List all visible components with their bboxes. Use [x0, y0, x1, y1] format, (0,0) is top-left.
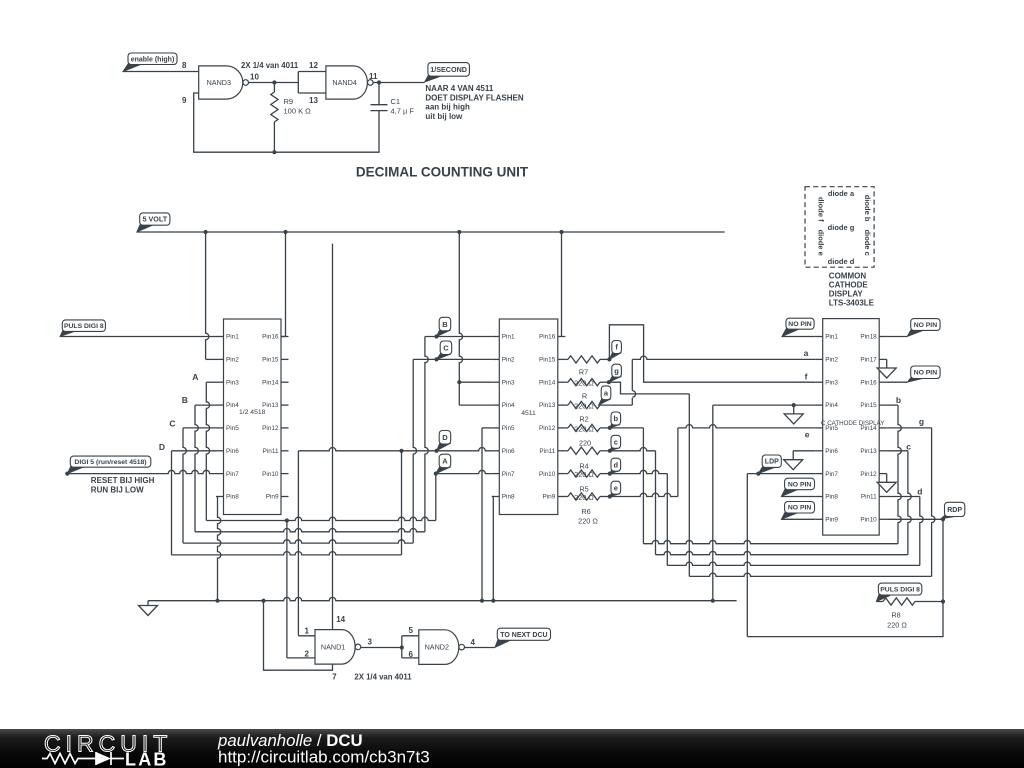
wire: pin8 stub wire — [781, 496, 815, 498]
svg-text:diode f: diode f — [817, 197, 826, 222]
svg-text:C: C — [443, 343, 449, 352]
wire: NAND1 out to NAND2 in — [361, 645, 404, 649]
svg-text:c: c — [614, 438, 618, 447]
svg-text:5: 5 — [409, 626, 414, 635]
flag: NO PIN (display pin18) — [907, 319, 940, 337]
text: RESET BIJ HIGH — [91, 476, 155, 494]
svg-text:Pin5: Pin5 — [502, 425, 515, 432]
wire: route a — [631, 398, 633, 405]
wire: node D loop (4518 pin6) — [172, 450, 217, 452]
wire: route g into Pin14 — [887, 427, 932, 429]
wire: pin4 drop to ground rail — [712, 405, 714, 601]
svg-text:100 K Ω: 100 K Ω — [284, 107, 312, 116]
svg-text:7: 7 — [332, 673, 337, 682]
flag: node C — [437, 341, 452, 359]
flag: NO PIN (display pin16) — [907, 366, 940, 382]
wire: NAND4-area vertical to NAND1 pin14 — [332, 244, 334, 630]
wire: route g vertical — [688, 394, 690, 577]
wire: L4 riser to 4511 pin6 junction — [401, 451, 403, 555]
resistor R9 body — [271, 92, 278, 122]
svg-text:Pin3: Pin3 — [502, 379, 515, 386]
op-amp-style gate NAND3 — [199, 66, 249, 99]
resistor R8 body — [883, 598, 915, 605]
wire: route b into Pin15 — [887, 404, 898, 406]
svg-text:e: e — [614, 483, 618, 492]
wire: L1 riser to 4511 pin7 — [435, 474, 437, 521]
svg-text:220 Ω: 220 Ω — [578, 516, 598, 525]
wire: 4511 pin1 row (B) — [425, 334, 492, 338]
svg-text:Pin1: Pin1 — [502, 334, 515, 341]
svg-text:uit bij low: uit bij low — [425, 112, 463, 121]
svg-text:NAAR 4 VAN 4511: NAAR 4 VAN 4511 — [425, 84, 493, 93]
svg-text:Pin10: Pin10 — [860, 517, 877, 524]
svg-text:2: 2 — [305, 649, 310, 658]
junction d — [608, 472, 612, 476]
svg-text:NO PIN: NO PIN — [914, 370, 938, 377]
svg-text:Pin7: Pin7 — [226, 471, 239, 478]
svg-text:Pin8: Pin8 — [226, 494, 239, 501]
flag: segment c — [610, 435, 621, 451]
wire: NAND2 out — [465, 647, 495, 649]
wire: 5V drop to 4518 pin16 — [285, 232, 287, 337]
flag: TO NEXT DCU — [495, 628, 551, 647]
svg-text:g: g — [614, 366, 619, 375]
wire: R8 left lead — [876, 601, 883, 603]
svg-text:1: 1 — [305, 627, 310, 636]
wire: route b vertical — [642, 428, 644, 544]
wire: route b run1 — [643, 540, 898, 543]
svg-text:6: 6 — [409, 650, 414, 659]
wire: L1 branch down to NAND1 pin2 — [286, 521, 288, 658]
svg-text:enable (high): enable (high) — [131, 56, 175, 63]
svg-text:LAB: LAB — [125, 750, 169, 768]
svg-text:Pin7: Pin7 — [502, 471, 515, 478]
wire: 4511 pin5 to ground rail — [482, 427, 492, 429]
gate NAND2 — [419, 630, 465, 665]
wire: display pin10 row to RDP — [887, 517, 945, 521]
svg-text:D: D — [159, 442, 165, 452]
svg-text:Pin13: Pin13 — [262, 402, 279, 409]
wire: ground rail — [148, 597, 737, 602]
svg-text:Pin6: Pin6 — [226, 448, 239, 455]
svg-text:b: b — [614, 414, 619, 423]
wire: route a horizontal — [632, 356, 815, 359]
wire: display pin12 to ground — [886, 474, 888, 483]
text: NAAR 4 VAN 4511 annotation — [425, 84, 523, 121]
wire: display pin17 to ground — [885, 359, 887, 368]
svg-text:PULS DIGI 8: PULS DIGI 8 — [880, 587, 920, 594]
svg-text:DIGI 5 (run/reset 4518): DIGI 5 (run/reset 4518) — [74, 459, 146, 466]
resistor segment row 1 — [568, 356, 600, 363]
footer bar — [0, 729, 1024, 768]
svg-text:Pin5: Pin5 — [226, 425, 239, 432]
svg-text:Pin2: Pin2 — [502, 357, 515, 364]
wire: route b — [610, 427, 644, 429]
IC U1 1/2 4518 — [216, 319, 289, 515]
wire: R8 right lead — [915, 601, 943, 603]
svg-text:A: A — [442, 457, 448, 466]
flag: segment d — [610, 458, 621, 473]
junction e — [608, 494, 612, 498]
svg-text:R9: R9 — [284, 97, 294, 106]
flag: 1/SECOND — [425, 63, 470, 83]
svg-text:Pin14: Pin14 — [262, 379, 279, 386]
text: COMMON CATHODE DISPLAY LTS-3403LE — [829, 272, 875, 308]
wire: 4511 pin7 row (A) — [434, 470, 492, 475]
svg-text:diode c: diode c — [863, 230, 872, 256]
wire: C vertical — [183, 428, 186, 543]
svg-text:4: 4 — [471, 638, 476, 647]
footer text — [217, 731, 430, 767]
svg-text:d: d — [917, 486, 922, 496]
resistor segment row 7 — [568, 493, 600, 500]
wire: bundle line L2 (B) — [195, 528, 425, 531]
svg-text:Pin10: Pin10 — [262, 471, 279, 478]
wire: 4518 pin8 to ground rail — [218, 497, 221, 601]
flag: NO PIN (display pin8) — [781, 478, 814, 496]
svg-text:NO PIN: NO PIN — [788, 481, 812, 488]
svg-text:1/2 4518: 1/2 4518 — [239, 409, 266, 416]
wire: bundle line L4 (D) — [172, 552, 402, 555]
svg-text:Pin12: Pin12 — [262, 425, 279, 432]
wire: route e — [610, 493, 678, 496]
svg-text:Pin16: Pin16 — [860, 379, 877, 386]
svg-text:3: 3 — [368, 637, 373, 646]
svg-text:COMMON: COMMON — [829, 272, 867, 281]
junction: R9 bottom — [272, 150, 276, 154]
svg-text:NAND3: NAND3 — [207, 78, 231, 87]
wire: A vertical — [206, 382, 209, 520]
wire: 5V drop to 4518 pin2 — [206, 232, 209, 359]
svg-text:CATHODE: CATHODE — [829, 280, 869, 289]
wire: bundle line L1 (A) — [206, 517, 435, 522]
svg-text:Pin11: Pin11 — [861, 494, 877, 501]
svg-text:Pin3: Pin3 — [825, 379, 838, 386]
wire: into NAND1 pin1 — [298, 635, 315, 637]
wire: route c into Pin13 — [887, 450, 908, 452]
wire: node B loop (4518 pin4) — [195, 404, 216, 406]
wire: NAND4 input bracket — [298, 72, 326, 94]
wire: L2 riser to 4511 pin1 — [425, 337, 428, 532]
wire: NAND3 pin9 feedback loop — [194, 93, 379, 152]
wire: route c run2 — [656, 551, 908, 554]
wire: route d vertical — [666, 474, 668, 566]
seven-segment diode box (dashed) — [805, 187, 874, 268]
flag: segment b — [610, 412, 621, 428]
wire: into 4511 pin3 — [459, 381, 492, 383]
wire: pin16 stub wire — [887, 381, 908, 383]
wire: L3 riser to 4511 pin2 — [413, 359, 416, 543]
svg-text:R: R — [582, 392, 587, 401]
resistor segment row 5 — [568, 447, 600, 454]
svg-text:Pin9: Pin9 — [825, 517, 838, 524]
wire: NAND1 pin7 loop — [264, 601, 333, 671]
wire: 4511 pin6 row (D signal) — [298, 448, 491, 453]
flag: RDP — [941, 502, 965, 519]
svg-text:R7: R7 — [579, 368, 588, 377]
svg-text:http://circuitlab.com/cb3n7t3: http://circuitlab.com/cb3n7t3 — [218, 748, 430, 767]
wire: into 4518 pin2 — [206, 358, 216, 360]
resistor segment row 3 — [568, 401, 600, 408]
svg-text:Pin2: Pin2 — [226, 357, 239, 364]
ground at display pin4 — [793, 405, 795, 414]
wire: route g run4 — [689, 573, 931, 576]
svg-text:Pin2: Pin2 — [825, 357, 838, 364]
svg-text:LDP: LDP — [765, 459, 779, 466]
svg-text:Pin4: Pin4 — [825, 402, 838, 409]
svg-text:diode d: diode d — [828, 257, 855, 266]
svg-text:220 Ω: 220 Ω — [574, 379, 594, 388]
wire: pin18 stub wire — [887, 336, 908, 338]
svg-text:Pin6: Pin6 — [825, 448, 838, 455]
svg-text:NO PIN: NO PIN — [788, 321, 812, 328]
resistor name labels — [574, 368, 598, 526]
gate NAND4 — [326, 66, 373, 99]
wire: PULS DIGI 8 to 4518 pin1 — [60, 336, 216, 338]
svg-text:RESET BIJ HIGH: RESET BIJ HIGH — [91, 476, 155, 485]
svg-text:Pin7: Pin7 — [825, 471, 838, 478]
CircuitLab logo — [42, 731, 172, 768]
wire: 4518 pin16 link — [281, 336, 286, 338]
svg-text:Pin15: Pin15 — [262, 357, 279, 364]
svg-text:Pin13: Pin13 — [860, 448, 877, 455]
wire: into NAND1 pin2 — [287, 657, 315, 659]
resistor segment row 2 — [568, 379, 600, 386]
svg-text:e: e — [805, 430, 810, 440]
svg-text:NAND4: NAND4 — [332, 78, 356, 87]
wire: LDP drop — [746, 474, 748, 637]
svg-text:220 Ω: 220 Ω — [574, 470, 594, 479]
flag: segment a — [599, 386, 611, 405]
junction f — [607, 357, 611, 361]
flag: segment f — [609, 341, 621, 360]
wire: pin1 stub wire — [782, 336, 815, 338]
svg-text:c: c — [906, 441, 911, 451]
svg-text:1/SECOND: 1/SECOND — [430, 65, 467, 74]
wire: pin9 stub wire — [781, 518, 815, 520]
flag: NO PIN (display pin1) — [782, 318, 814, 336]
svg-text:diode a: diode a — [828, 189, 855, 198]
wire: route d into Pin11 — [887, 496, 920, 498]
svg-text:Pin16: Pin16 — [539, 334, 556, 341]
svg-text:9: 9 — [182, 96, 187, 105]
capacitor C1 — [371, 83, 388, 111]
svg-text:11: 11 — [369, 72, 378, 81]
svg-text:5 VOLT: 5 VOLT — [142, 215, 167, 224]
svg-text:220 Ω: 220 Ω — [887, 620, 907, 629]
IC U2 4511 — [492, 319, 566, 515]
wire: NAND3 out to NAND4 in — [249, 80, 299, 84]
svg-text:2X 1/4 van 4011: 2X 1/4 van 4011 — [354, 673, 412, 682]
flag: node D — [437, 431, 451, 451]
svg-text:Pin15: Pin15 — [539, 357, 556, 364]
flag: node B — [437, 317, 451, 336]
svg-text:Pin15: Pin15 — [860, 402, 877, 409]
junction g — [607, 380, 611, 384]
junction b — [608, 426, 612, 430]
wire: pin5 vertical — [481, 428, 483, 601]
svg-text:A: A — [192, 372, 198, 382]
wire: route g riser — [932, 428, 935, 577]
svg-text:10: 10 — [250, 73, 259, 82]
wire: display pin6 to ground — [793, 451, 815, 460]
svg-text:Pin18: Pin18 — [860, 334, 877, 341]
wire: route f — [609, 325, 815, 382]
svg-text:C: C — [169, 418, 175, 428]
svg-text:Pin8: Pin8 — [825, 494, 838, 501]
svg-text:Pin11: Pin11 — [539, 448, 555, 455]
svg-text:12: 12 — [309, 61, 318, 70]
wire: enable to NAND3 pin8 — [123, 71, 199, 73]
wire: route c vertical — [655, 451, 657, 555]
svg-text:NAND2: NAND2 — [425, 643, 449, 652]
svg-text:4511: 4511 — [521, 410, 536, 417]
svg-text:2X 1/4 van 4011: 2X 1/4 van 4011 — [241, 61, 299, 70]
svg-text:TO NEXT DCU: TO NEXT DCU — [500, 632, 547, 639]
wire: route d — [610, 470, 668, 473]
svg-text:d: d — [614, 460, 619, 469]
wire: bundle line L3 (C) — [183, 540, 413, 543]
wire: route g jog — [609, 382, 690, 394]
svg-text:NO PIN: NO PIN — [914, 322, 938, 329]
gate NAND1 — [315, 630, 361, 665]
wire: RDP vertical to R8 — [941, 519, 945, 603]
svg-text:NO PIN: NO PIN — [788, 505, 812, 512]
svg-text:220 Ω: 220 Ω — [574, 401, 594, 410]
svg-text:14: 14 — [336, 615, 345, 624]
svg-text:f: f — [805, 372, 808, 382]
svg-text:Pin4: Pin4 — [226, 402, 239, 409]
svg-text:220 Ω: 220 Ω — [574, 493, 594, 502]
junction c — [608, 449, 612, 453]
svg-text:LTS-3403LE: LTS-3403LE — [829, 298, 875, 307]
svg-text:g: g — [919, 417, 924, 427]
wire: pin8 vertical — [492, 497, 494, 601]
flag: LDP — [758, 455, 781, 474]
flag: PULS DIGI 8 (bottom) — [876, 583, 921, 601]
ground symbol (left) — [139, 606, 158, 616]
flag: node A — [436, 454, 451, 473]
flag: 5 VOLT — [137, 213, 170, 232]
svg-text:Pin4: Pin4 — [502, 402, 515, 409]
svg-text:Pin1: Pin1 — [226, 334, 239, 341]
wire: D vertical — [171, 451, 173, 555]
svg-text:R6: R6 — [581, 507, 590, 516]
svg-text:D: D — [442, 433, 448, 442]
svg-text:NAND1: NAND1 — [321, 643, 345, 652]
svg-text:DISPLAY: DISPLAY — [829, 289, 864, 298]
svg-text:DECIMAL COUNTING UNIT: DECIMAL COUNTING UNIT — [356, 165, 529, 180]
wire: 4511 pin8 to ground rail — [492, 496, 494, 498]
flag: PULS DIGI 8 (left) — [60, 320, 105, 337]
wire: NAND4 out to 1/SECOND — [373, 80, 424, 84]
svg-text:Pin9: Pin9 — [543, 494, 556, 501]
svg-text:aan bij high: aan bij high — [425, 103, 470, 112]
svg-text:B: B — [442, 320, 448, 329]
svg-text:RDP: RDP — [947, 507, 962, 514]
svg-text:Pin16: Pin16 — [262, 334, 279, 341]
svg-text:C1: C1 — [391, 97, 401, 106]
wire: DIGI 5 to 4518 pin7 — [65, 470, 216, 475]
svg-text:Pin10: Pin10 — [539, 471, 556, 478]
wire: 5V rail — [137, 230, 725, 234]
svg-text:8: 8 — [182, 61, 187, 70]
svg-text:B: B — [182, 395, 188, 405]
svg-text:diode g: diode g — [828, 223, 855, 232]
wire: B vertical — [195, 405, 198, 532]
svg-text:DOET DISPLAY FLASHEN: DOET DISPLAY FLASHEN — [425, 93, 523, 102]
wire: display pin4 row — [713, 403, 815, 407]
wire: display pin7 row — [747, 472, 815, 476]
flag: segment e — [610, 481, 621, 496]
svg-text:Pin9: Pin9 — [266, 494, 279, 501]
wire: 4511 pin2 row (C) — [413, 357, 492, 361]
wire: ground stub — [147, 601, 149, 606]
wire: R9 bottom lead — [273, 122, 275, 152]
svg-text:Pin6: Pin6 — [502, 448, 515, 455]
resistor segment row 6 — [568, 470, 600, 477]
svg-text:Pin12: Pin12 — [539, 425, 556, 432]
svg-text:Pin13: Pin13 — [539, 402, 556, 409]
svg-text:220: 220 — [579, 439, 591, 448]
wire: route e vertical — [677, 428, 679, 497]
wire: route c riser — [908, 451, 911, 555]
wire: node C loop (4518 pin5) — [183, 427, 216, 429]
svg-text:13: 13 — [309, 96, 318, 105]
svg-text:4,7 µ F: 4,7 µ F — [391, 107, 415, 116]
svg-text:Pin14: Pin14 — [539, 379, 556, 386]
svg-text:diode e: diode e — [817, 230, 826, 256]
flag: NO PIN (display pin9) — [781, 502, 814, 520]
wire: route d riser — [920, 497, 923, 566]
svg-text:R8: R8 — [891, 610, 900, 619]
wire: into 4511 pin4 — [459, 404, 492, 406]
svg-text:Pin3: Pin3 — [226, 379, 239, 386]
IC U3 common cathode display — [815, 319, 887, 535]
svg-text:a: a — [804, 348, 809, 358]
svg-text:diode b: diode b — [863, 195, 872, 222]
svg-text:220 Ω: 220 Ω — [574, 424, 594, 433]
svg-text:Pin8: Pin8 — [502, 494, 515, 501]
wire: NAND2 input bracket — [402, 636, 419, 658]
resistor segment row 4 — [568, 424, 600, 431]
svg-text:Pin12: Pin12 — [860, 471, 877, 478]
wire: route c — [610, 448, 656, 451]
wire: 1/SECOND drop to 4511 — [457, 232, 462, 405]
wire: route b riser — [898, 405, 901, 544]
wire: node A loop (4518 pin3) — [206, 381, 216, 383]
svg-text:R2: R2 — [579, 415, 588, 424]
wire: route d run3 — [667, 562, 920, 565]
svg-text:Pin11: Pin11 — [263, 448, 279, 455]
flag: enable (high) — [123, 53, 177, 72]
svg-text:Pin1: Pin1 — [825, 334, 838, 341]
wire: 5V drop to 4511 pin16 — [561, 232, 563, 337]
wire: route e horizontal — [678, 425, 815, 428]
svg-text:b: b — [896, 395, 901, 405]
svg-text:RUN BIJ LOW: RUN BIJ LOW — [91, 486, 144, 495]
wire: pin6 row down to NAND1 pin1 — [297, 451, 299, 636]
svg-text:Pin17: Pin17 — [860, 357, 877, 364]
wire: R9 top lead — [273, 83, 275, 93]
flag: DIGI 5 (run/reset 4518) — [67, 456, 151, 474]
wire: bottom loop to R8 node — [747, 602, 943, 637]
svg-text:PULS DIGI 8: PULS DIGI 8 — [64, 323, 104, 330]
svg-text:C CATHODE DISPLAY: C CATHODE DISPLAY — [821, 420, 884, 427]
flag: segment g — [609, 364, 622, 382]
